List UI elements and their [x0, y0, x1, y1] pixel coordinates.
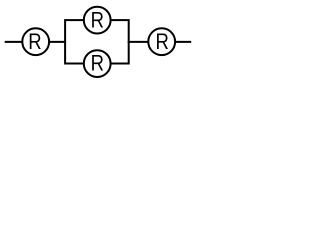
svg-text:R: R	[91, 9, 104, 33]
wire: parallel block rails and branch wires	[65, 20, 129, 63]
svg-text:R: R	[91, 52, 104, 76]
resistor R3 (bottom branch)	[84, 50, 111, 77]
resistor R1	[22, 28, 49, 55]
resistor R2 (top branch)	[84, 7, 111, 34]
wire: left lead through R1 to left rail	[5, 41, 66, 43]
wire: right rail to right lead	[128, 41, 192, 43]
svg-text:R: R	[28, 30, 41, 54]
svg-text:R: R	[156, 30, 169, 54]
resistor R4	[148, 28, 175, 55]
